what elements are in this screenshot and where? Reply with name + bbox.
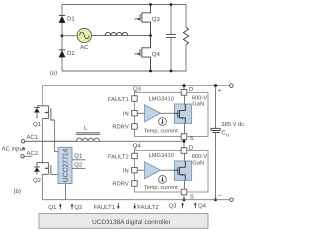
driver triangle (U2) xyxy=(145,162,161,179)
svg-text:Q1: Q1 xyxy=(33,121,42,128)
svg-text:Q3: Q3 xyxy=(152,16,161,23)
temp/current sensor icon (U1) xyxy=(159,118,167,126)
controller U4 UCD3138A xyxy=(39,214,208,229)
temp/current sensor icon (U2) xyxy=(159,176,167,184)
capacitor Co xyxy=(215,86,217,129)
wire: top rail of (b) xyxy=(42,85,229,87)
node: junction left mid xyxy=(61,34,64,37)
svg-text:Q4: Q4 xyxy=(133,143,142,150)
svg-text:D2: D2 xyxy=(67,50,75,57)
wire: D pin into GaN box (U2) xyxy=(184,153,186,161)
wire: AC2 stub xyxy=(24,155,32,157)
wire: IN pin to driver triangle (U2) xyxy=(137,169,144,171)
wire: Q3 stub to module xyxy=(134,91,136,96)
svg-text:+: + xyxy=(218,88,222,95)
svg-text:FAULT1: FAULT1 xyxy=(94,204,116,211)
svg-text:AC input: AC input xyxy=(2,146,25,153)
svg-text:L: L xyxy=(84,125,88,132)
svg-text:GaN: GaN xyxy=(192,100,204,107)
wire: junction to AC source xyxy=(62,35,77,37)
svg-text:D: D xyxy=(189,144,194,151)
diode D1 xyxy=(59,15,65,22)
transistor Q1 with body diode xyxy=(34,106,55,120)
transistor Q2 with body diode xyxy=(34,163,51,175)
svg-text:FAULT2: FAULT2 xyxy=(108,153,129,160)
pin IN (U1) xyxy=(132,110,138,116)
node: D1 top rail junction xyxy=(183,84,186,87)
wire: S pin to phase node xyxy=(183,139,185,150)
svg-text:GaN: GaN xyxy=(192,159,204,166)
node: S2 bottom rail junction xyxy=(183,198,186,201)
svg-text:600-V: 600-V xyxy=(192,94,208,101)
wire: UCC27714 bottom to rail xyxy=(65,184,67,200)
svg-text:UCC27714: UCC27714 xyxy=(62,148,69,182)
pin RDRV (U1) xyxy=(132,124,138,130)
inductor (a) xyxy=(105,32,128,35)
pin FAULT2 xyxy=(132,153,138,159)
wire: GaN box to S pin xyxy=(184,123,186,133)
svg-text:LMG3410: LMG3410 xyxy=(149,152,174,159)
wire: bottom rail of (a) xyxy=(62,70,187,72)
terminal: + output xyxy=(230,84,234,88)
diode D2 xyxy=(59,50,65,57)
wire: AC1 line to inductor xyxy=(25,140,77,142)
svg-text:Q2: Q2 xyxy=(33,177,42,184)
wire: triangle to GaN FET (U2) xyxy=(160,169,174,171)
GaN FET box (U1) xyxy=(174,104,191,123)
terminal AC1 xyxy=(21,140,24,143)
terminal AC2 xyxy=(21,155,24,158)
node: Co top junction xyxy=(214,84,217,87)
capacitor (a) xyxy=(170,5,172,35)
svg-text:(a): (a) xyxy=(50,69,57,76)
node: Co bottom junction xyxy=(214,198,217,201)
svg-text:AC2: AC2 xyxy=(26,150,38,157)
node: phase junction xyxy=(183,140,186,143)
pin D (U1) xyxy=(181,90,187,96)
wire: GaN box to S pin (U2) xyxy=(184,180,186,189)
svg-text:385 V dc: 385 V dc xyxy=(221,121,244,128)
svg-text:RDRV: RDRV xyxy=(112,125,128,131)
svg-text:FAULT2: FAULT2 xyxy=(137,204,159,211)
wire: Q2 gate to driver xyxy=(51,173,58,176)
wire: top rail of (a) xyxy=(62,4,186,6)
svg-text:D: D xyxy=(189,86,194,93)
transistor Q3 xyxy=(135,5,151,36)
svg-text:Q1: Q1 xyxy=(48,204,57,211)
wire: IN pin to driver triangle xyxy=(137,112,144,114)
svg-text:FAULT1: FAULT1 xyxy=(108,97,129,103)
module U2 LMG3410 outline xyxy=(135,150,209,192)
svg-text:D1: D1 xyxy=(67,16,75,23)
wire: Q1 source down through AC1 node to Q2 xyxy=(41,119,43,164)
wire: triangle to GaN FET xyxy=(160,112,174,114)
wire: left vertical of (a) xyxy=(61,5,63,72)
svg-text:RDRV: RDRV xyxy=(112,182,128,188)
resistor (a) xyxy=(185,5,187,28)
svg-text:Temp, current: Temp, current xyxy=(144,128,178,134)
wire: S pin to bottom rail xyxy=(183,195,185,200)
wire: D pin to top rail xyxy=(183,86,185,90)
wire: bottom rail of (b) xyxy=(42,199,229,201)
svg-text:Q2: Q2 xyxy=(74,162,83,169)
svg-text:UCD3138A digital controller: UCD3138A digital controller xyxy=(92,219,171,226)
node: half-bridge mid xyxy=(149,34,152,37)
pin D (U2) xyxy=(181,148,187,154)
GaN FET symbol (U1) xyxy=(174,104,185,123)
svg-text:Q1: Q1 xyxy=(74,153,83,160)
gate driver U3 UCC27714 xyxy=(58,147,72,183)
wire: phase line inductor to GaN midpoint xyxy=(25,140,184,142)
wire: D pin into GaN box xyxy=(184,95,186,104)
GaN FET symbol (U2) xyxy=(174,161,185,180)
svg-text:IN: IN xyxy=(123,111,129,117)
pin FAULT1 xyxy=(132,96,138,102)
svg-text:Temp, current: Temp, current xyxy=(144,185,178,191)
svg-text:600-V: 600-V xyxy=(192,153,208,160)
svg-text:IN: IN xyxy=(123,168,129,174)
pin S (U2) xyxy=(181,189,187,195)
terminal: - output xyxy=(230,198,234,202)
svg-text:(b): (b) xyxy=(14,188,21,195)
svg-text:S: S xyxy=(190,135,194,142)
AC source xyxy=(77,28,91,42)
transistor Q4 xyxy=(135,36,151,72)
svg-text:AC1: AC1 xyxy=(26,134,38,141)
wire: AC to inductor xyxy=(92,35,151,37)
wire: Q1 gate to driver xyxy=(55,120,58,152)
module U1 LMG3410 outline xyxy=(135,92,209,136)
svg-text:AC: AC xyxy=(80,44,89,51)
wire: top rail down to Q1 xyxy=(41,86,43,106)
svg-text:LMG3410: LMG3410 xyxy=(149,96,174,103)
pin IN (U2) xyxy=(132,167,138,173)
node: half-bridge top xyxy=(149,3,152,6)
node: cap bottom xyxy=(170,70,173,73)
svg-text:−: − xyxy=(218,192,222,199)
pin S (U1) xyxy=(181,134,187,140)
node: half-bridge bottom xyxy=(149,70,152,73)
svg-text:Q3: Q3 xyxy=(169,203,178,210)
node: cap top xyxy=(170,3,173,6)
wire: Q2 source to bottom rail xyxy=(41,174,43,199)
svg-text:o: o xyxy=(226,132,229,138)
driver triangle (U1) xyxy=(145,105,161,122)
svg-text:Q2: Q2 xyxy=(74,204,83,211)
wire: Q4 stub to module xyxy=(134,148,136,153)
pin RDRV (U2) xyxy=(132,181,138,187)
svg-text:Q4: Q4 xyxy=(152,51,161,58)
svg-text:Q4: Q4 xyxy=(198,203,207,210)
GaN FET box (U2) xyxy=(174,161,191,180)
